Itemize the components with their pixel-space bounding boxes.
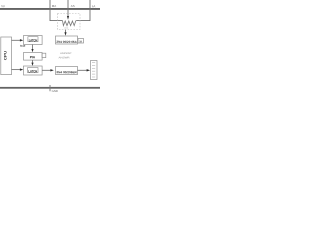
svg-text:PIA: PIA <box>30 55 36 59</box>
svg-text:5V: 5V <box>1 4 5 8</box>
potentiometer P1 wiper arrow <box>67 16 69 20</box>
latch 1 inner label box <box>28 37 38 42</box>
latch 2 inner label box <box>28 68 38 73</box>
svg-text:AM/SWT: AM/SWT <box>60 52 72 55</box>
arrow into driver <box>50 69 53 71</box>
arrow into latch 1 <box>20 39 23 41</box>
wire CPU to latch 1 <box>12 39 21 41</box>
wire latch 1 to PIA <box>32 45 34 50</box>
wire vertical wiper line <box>67 0 69 16</box>
latch 1 outer box <box>24 36 43 45</box>
svg-text:IC10: IC10 <box>20 45 26 48</box>
svg-text:LA: LA <box>92 4 96 8</box>
svg-text:ANSWR: ANSWR <box>58 56 69 59</box>
wire GND bottom rail <box>0 87 100 89</box>
svg-text:MA: MA <box>52 4 56 8</box>
wire latch 2 to driver <box>42 69 51 71</box>
display box <box>91 61 98 80</box>
svg-text:2N4 00/206ER: 2N4 00/206ER <box>56 70 77 74</box>
arrow into PIA <box>31 49 33 52</box>
arrow into display <box>87 69 91 71</box>
wire driver to display <box>78 69 87 71</box>
svg-text:CPU: CPU <box>4 50 8 60</box>
wire CPU to latch 2 <box>12 69 21 71</box>
converter port box 18 <box>78 39 84 44</box>
CPU block U1 <box>1 37 12 75</box>
svg-text:LATCH: LATCH <box>28 69 37 73</box>
display row 1 <box>92 62 95 64</box>
svg-text:AS: AS <box>71 4 75 8</box>
arrow into converter box <box>64 32 66 35</box>
arrow into latch 2 <box>31 63 33 66</box>
display row 3 <box>92 67 95 69</box>
arrow into latch 2 left <box>20 68 23 70</box>
svg-text:2N4 00/20 66A: 2N4 00/20 66A <box>56 40 77 44</box>
wire vertical drop to pot right <box>77 0 91 21</box>
wire GND stub <box>49 85 51 91</box>
display row 6 <box>92 76 95 78</box>
PIA box U2 <box>24 53 43 61</box>
svg-text:GND: GND <box>52 89 58 93</box>
wire vertical drop to pot left <box>50 0 63 21</box>
latch 2 outer box <box>24 66 43 75</box>
svg-text:LATCH: LATCH <box>29 38 38 42</box>
potentiometer P1 dashed enclosure <box>58 14 81 30</box>
display row 5 <box>92 73 95 75</box>
wire +5V top rail <box>0 8 100 10</box>
potentiometer P1 resistor zigzag <box>63 21 77 26</box>
wire PIA to latch 2 <box>32 60 34 63</box>
converter box IC1 <box>56 36 78 44</box>
PIA side port box <box>42 53 46 57</box>
display row 2 <box>92 64 95 66</box>
wire pot output down to converter <box>65 30 67 33</box>
display row 4 <box>92 70 95 72</box>
driver box IC2 <box>56 67 78 75</box>
